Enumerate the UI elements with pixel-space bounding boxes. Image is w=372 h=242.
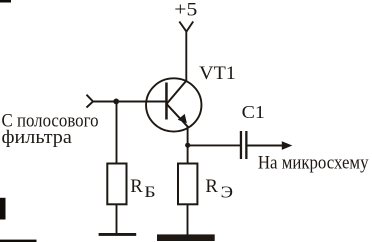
svg-text:Э: Э [221, 183, 234, 202]
capacitor C1 left plate [240, 131, 242, 159]
scan artifact: left edge bar [0, 198, 6, 220]
wire: capacitor to output arrow [248, 145, 289, 147]
output arrowhead [282, 141, 293, 150]
collector diagonal [167, 80, 187, 104]
resistor RB body [107, 164, 126, 205]
wire: input to base [93, 101, 166, 103]
wire: RE to ground [187, 204, 189, 234]
power terminal fork [179, 22, 193, 32]
wire: RB to ground [116, 204, 118, 233]
svg-text:R: R [130, 176, 143, 197]
base bar [165, 83, 168, 120]
ground under RB [99, 233, 137, 236]
transistor VT1 circle [146, 78, 201, 131]
emitter arrowhead [178, 114, 187, 123]
svg-text:R: R [205, 176, 218, 197]
node: base junction dot [113, 99, 119, 105]
wire: junction to capacitor [188, 144, 240, 146]
wire: junction down to RB [116, 101, 118, 163]
scan artifact: bottom-left line [0, 240, 37, 242]
svg-text:На микросхему: На микросхему [258, 153, 369, 174]
svg-text:фильтра: фильтра [2, 127, 73, 148]
input terminal fork [87, 95, 94, 108]
resistor RE body [178, 164, 197, 205]
capacitor C1 right plate [245, 131, 247, 159]
emitter diagonal [167, 104, 189, 127]
wire: emitter down from circle [187, 127, 189, 164]
scan artifact: top-left dash [0, 0, 11, 3]
svg-text:Б: Б [144, 184, 155, 201]
node: emitter junction dot [185, 143, 190, 148]
svg-text:VT1: VT1 [199, 63, 236, 84]
ground bar under RE (thick) [157, 234, 215, 241]
svg-text:+5: +5 [174, 0, 197, 21]
wire: +5 to collector [185, 32, 187, 81]
svg-text:C1: C1 [242, 102, 265, 122]
